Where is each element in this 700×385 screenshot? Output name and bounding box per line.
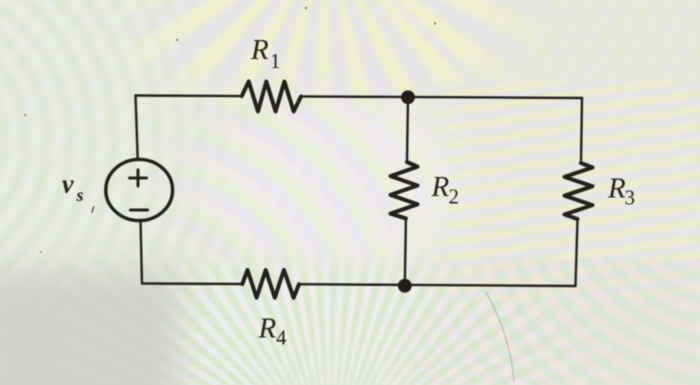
minus sign of source (131, 209, 148, 212)
stray tick mark (92, 207, 94, 213)
wire bottom (R4 to bottom node) (299, 284, 576, 286)
wire left (top corner down to source) (136, 96, 138, 159)
stray hair curve (486, 292, 514, 381)
dust specks (24, 7, 436, 253)
svg-text:R: R (607, 173, 626, 205)
resistor R4 (242, 270, 299, 298)
plus sign of source (130, 170, 147, 186)
svg-text:2: 2 (449, 185, 460, 209)
svg-text:4: 4 (276, 326, 287, 350)
svg-text:R: R (258, 313, 277, 345)
wire top (R1 to top node) (301, 96, 582, 98)
node (top junction) (401, 90, 415, 104)
wire left (source down to bottom corner) (141, 221, 143, 284)
wire middle (R2 down to bottom node) (405, 218, 406, 285)
svg-text:3: 3 (625, 186, 636, 210)
svg-text:s: s (76, 185, 84, 205)
svg-text:R: R (250, 34, 269, 66)
wire right (R3 down to bottom corner) (576, 219, 578, 286)
svg-text:v: v (62, 170, 74, 199)
resistor R1 (242, 82, 301, 112)
wire top (left segment, node 1 to R1) (136, 94, 242, 97)
wire bottom (left corner to R4) (142, 282, 242, 285)
node (bottom junction) (398, 279, 412, 293)
resistor R3 (565, 163, 593, 219)
resistor R2 (391, 162, 418, 218)
voltage source U vs (circle) (106, 159, 173, 220)
svg-text:1: 1 (270, 49, 281, 73)
svg-text:R: R (431, 171, 450, 203)
wire right (top corner down to R3) (581, 98, 582, 163)
wire middle (top node down to R2) (407, 97, 408, 162)
